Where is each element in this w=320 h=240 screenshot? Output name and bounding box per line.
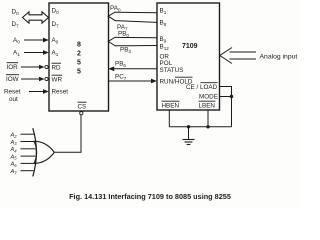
svg-text:MODE: MODE: [199, 94, 218, 101]
svg-text:7109: 7109: [182, 43, 198, 50]
svg-text:WR: WR: [52, 77, 63, 84]
wire CS from OR gate output: [55, 115, 82, 153]
wire ground stem: [188, 127, 190, 140]
wire PB6 (STATUS to 8255): [108, 66, 157, 71]
data bus bidirectional block arrow: [23, 12, 49, 23]
wire ground bus horizontal: [169, 126, 231, 128]
Analog input double-line arrow: [220, 48, 256, 64]
wire LBEN down: [207, 110, 209, 127]
svg-text:5: 5: [77, 60, 81, 67]
junction ground stem: [187, 125, 190, 128]
wire A1: [24, 50, 49, 55]
svg-text:RD: RD: [52, 65, 62, 72]
svg-text:Reset: Reset: [52, 89, 69, 96]
svg-text:CS: CS: [78, 104, 87, 111]
svg-text:8: 8: [77, 42, 81, 49]
pin CS (8255 inside, active low): [78, 102, 87, 110]
pin CE/LOAD (7109, LOAD active low): [186, 83, 218, 91]
svg-text:A2: A2: [10, 133, 18, 139]
pin RUN/HOLD (7109, HOLD active low): [160, 77, 193, 85]
junction MODE: [230, 95, 233, 98]
svg-text:Analog input: Analog input: [260, 53, 298, 60]
node IOR external label (active low): [7, 63, 19, 71]
wire Reset: [29, 89, 49, 94]
wire bus PA0-PA7 fan with open arrowhead: [108, 12, 157, 23]
wire PC7 (8255 to RUN/HOLD): [109, 79, 157, 84]
pin HBEN (7109, active low): [162, 101, 180, 109]
svg-text:A4: A4: [10, 147, 18, 153]
svg-text:out: out: [9, 96, 18, 103]
pin LBEN (7109, active low): [199, 101, 216, 109]
svg-text:5: 5: [77, 69, 81, 76]
svg-text:2: 2: [77, 51, 81, 58]
svg-text:A5: A5: [10, 154, 18, 160]
wire HBEN down: [168, 110, 170, 127]
node Reset out external label: [4, 89, 21, 104]
active-low bubble RD: [45, 65, 48, 68]
svg-text:LBEN: LBEN: [199, 103, 216, 110]
svg-text:A7: A7: [10, 169, 18, 175]
svg-text:HBEN: HBEN: [162, 103, 180, 110]
svg-text:IOW: IOW: [6, 76, 19, 83]
svg-text:A3: A3: [10, 140, 18, 146]
svg-text:Reset: Reset: [4, 89, 21, 96]
svg-text:STATUS: STATUS: [160, 67, 184, 74]
IC U1 8255 internal name label: [77, 42, 81, 76]
wire CE/LOAD to vertical bus: [220, 87, 232, 127]
wire A0: [24, 38, 49, 43]
ground symbol: [183, 140, 195, 145]
wire MODE to vertical bus: [220, 96, 232, 98]
svg-text:Fig. 14.131 Interfacing 7109 t: Fig. 14.131 Interfacing 7109 to 8085 usi…: [69, 192, 231, 201]
pin RD (8255 inside, active low): [52, 63, 62, 71]
svg-text:A6: A6: [10, 162, 18, 168]
IC U1 8255 body: [49, 3, 109, 111]
svg-text:CE / LOAD: CE / LOAD: [186, 84, 218, 91]
wires A2-A7 gate inputs: [21, 134, 36, 171]
svg-text:POL: POL: [160, 60, 173, 67]
svg-text:IOR: IOR: [7, 64, 19, 71]
node IOW external label (active low): [6, 75, 19, 83]
junction LBEN: [206, 125, 209, 128]
OR gate G1 body: [34, 141, 54, 163]
IC U2 7109 body: [157, 3, 220, 110]
active-low bubble CS: [80, 112, 83, 115]
wire IOR: [21, 65, 45, 70]
wire IOW: [21, 77, 45, 82]
pin WR (8255 inside, active low): [52, 75, 63, 83]
wire bus PB0-PB3 fan with open arrowhead: [108, 37, 157, 46]
OR gate G1 input extension arc: [33, 128, 37, 176]
active-low bubble WR: [45, 77, 48, 80]
